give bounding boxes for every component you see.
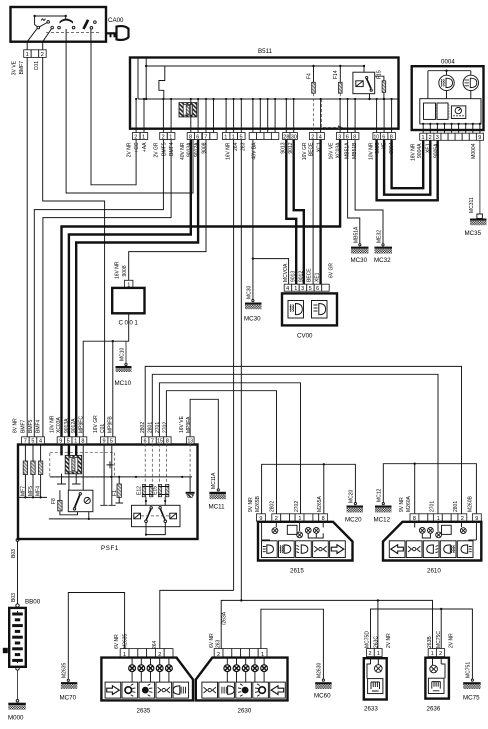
dashed arrow link <box>322 99 340 128</box>
svg-text:1: 1 <box>169 134 172 140</box>
svg-text:7: 7 <box>151 439 154 445</box>
ground MC70 <box>61 682 77 684</box>
svg-text:5: 5 <box>31 439 34 445</box>
B511 inner feed wire <box>145 58 147 99</box>
ground MC12 <box>375 506 392 508</box>
svg-text:2801: 2801 <box>453 501 459 512</box>
svg-text:2: 2 <box>439 651 442 657</box>
inner bus right part <box>50 476 192 478</box>
svg-text:264: 264 <box>152 640 158 649</box>
ground MC11 <box>209 492 226 494</box>
svg-text:B511: B511 <box>258 48 273 55</box>
icon 2635 reversing lamp <box>173 682 189 698</box>
svg-text:M000: M000 <box>8 715 24 722</box>
icon 2615 low beam <box>262 541 278 558</box>
svg-text:263C: 263C <box>373 636 379 648</box>
wire 263 bottom distribution <box>221 600 432 648</box>
PSF1 connector cells <box>22 437 195 445</box>
svg-text:2615: 2615 <box>290 568 304 575</box>
svg-text:263: 263 <box>216 639 222 648</box>
2610 icon cells <box>389 541 473 558</box>
svg-text:8: 8 <box>189 134 192 140</box>
thick wire 9013 B511 cell28 to CV00 <box>286 140 296 285</box>
svg-text:MC32: MC32 <box>374 257 391 264</box>
bulb 2630.2 <box>236 657 238 682</box>
2615 ground bus to MC20 <box>262 464 356 514</box>
svg-text:+CC: +CC <box>134 142 140 153</box>
svg-text:B03: B03 <box>11 549 17 558</box>
svg-text:MP9FA: MP9FA <box>186 416 192 433</box>
svg-text:PSF1: PSF1 <box>101 545 119 552</box>
wire BECE B511 cell2 to CV00 <box>312 140 314 285</box>
svg-text:7: 7 <box>204 134 207 140</box>
thick wire XE B511 to 0004 pin2 <box>384 140 430 195</box>
svg-text:4: 4 <box>39 439 42 445</box>
svg-text:5: 5 <box>110 439 113 445</box>
B511 inner bottom bus <box>138 98 398 100</box>
thick wire 9013A B511 to PSF1 cell5 <box>69 140 191 437</box>
bulb 2635.1 <box>131 657 133 682</box>
svg-text:MC20: MC20 <box>348 489 354 503</box>
svg-text:6: 6 <box>196 134 199 140</box>
svg-text:CA00: CA00 <box>108 17 124 24</box>
2615 internal bulbs <box>262 521 324 540</box>
bulb 2630.3 <box>245 657 247 682</box>
svg-text:6: 6 <box>346 134 349 140</box>
wire 9008 B511 cell7 to C001 <box>129 140 206 281</box>
wire 264 B511 to rear <box>233 140 235 591</box>
wire MP9FB PSF1 cell5 from C001 branch <box>112 341 114 437</box>
B511 inner left double line <box>137 58 139 99</box>
module pins to connector <box>423 124 480 133</box>
svg-text:10: 10 <box>374 134 380 140</box>
lamp wiring <box>428 71 471 99</box>
wire BMF4 B511 to PSF1 cell4 <box>43 140 171 437</box>
svg-text:MP9FC: MP9FC <box>79 416 85 433</box>
svg-text:40V NR: 40V NR <box>180 142 186 160</box>
module left <box>424 103 436 119</box>
svg-text:M2635: M2635 <box>62 662 68 678</box>
wire M2635 2635 cell1 to ground MC70 <box>68 593 124 680</box>
svg-text:263B: 263B <box>427 636 433 648</box>
relay 1 <box>68 490 93 512</box>
2610 ground bus to MC12 <box>383 464 476 514</box>
svg-text:BMF5: BMF5 <box>28 419 34 433</box>
svg-text:M260B: M260B <box>467 495 473 512</box>
svg-text:C01: C01 <box>100 424 106 433</box>
svg-text:2635: 2635 <box>137 708 151 715</box>
relay in B511 <box>353 72 375 94</box>
svg-text:MC60: MC60 <box>314 693 331 700</box>
headlamp unit 2610 box <box>383 522 481 561</box>
svg-text:1: 1 <box>422 135 425 141</box>
svg-text:28: 28 <box>283 134 289 140</box>
svg-text:2V NR: 2V NR <box>126 142 132 157</box>
icon 2635 rear fog lamp <box>122 682 138 698</box>
B511 step shape <box>159 66 165 99</box>
icon 2615 fog lamp <box>279 541 295 558</box>
svg-text:C001: C001 <box>119 320 140 327</box>
svg-text:2: 2 <box>429 135 432 141</box>
svg-text:XE1: XE1 <box>314 272 320 282</box>
svg-text:F8: F8 <box>51 498 57 504</box>
PSF1 top labels <box>13 415 192 433</box>
0004 connector cells <box>420 133 484 141</box>
thick wire XC1 B511 cell4 to CV00 cell6 <box>319 140 321 285</box>
svg-text:M260A: M260A <box>406 495 412 512</box>
CA00 mechanical link (dashed) <box>46 32 99 34</box>
svg-text:E15: E15 <box>153 486 159 495</box>
svg-text:/263A: /263A <box>221 611 227 625</box>
svg-text:2V NR: 2V NR <box>386 633 392 648</box>
svg-text:6V GR: 6V GR <box>329 263 335 278</box>
wire MC75D/MC75C to ground MC75 <box>371 609 473 679</box>
CA00 internal top link wire <box>35 15 66 17</box>
svg-text:BMF4: BMF4 <box>169 142 175 156</box>
wire MC10 drop from C001 <box>125 341 127 363</box>
svg-text:2: 2 <box>41 52 44 58</box>
lamp unit 2636 <box>425 649 449 713</box>
wires below relays <box>146 523 165 535</box>
svg-text:9013A: 9013A <box>64 418 70 433</box>
CA00 switch 1 <box>35 16 38 27</box>
svg-text:18V NR: 18V NR <box>411 143 417 161</box>
icon 2630 position lamp <box>202 682 218 698</box>
svg-text:13: 13 <box>188 438 194 444</box>
svg-text:BMF7: BMF7 <box>19 61 25 75</box>
svg-text:9008: 9008 <box>202 142 208 153</box>
ground M000 <box>16 667 19 670</box>
indicator lamp right (low beam) <box>463 75 478 90</box>
svg-text:MC20: MC20 <box>345 517 362 524</box>
CA00 connector cells 1,2 <box>24 50 32 58</box>
svg-text:BECE: BECE <box>306 268 312 282</box>
svg-text:M2630: M2630 <box>317 662 323 678</box>
B511 shunt component <box>179 103 197 117</box>
ground MC75 <box>463 682 480 684</box>
ignition switch CA00 box <box>11 7 107 42</box>
low beam icon cell <box>288 301 304 319</box>
svg-text:6V NR: 6V NR <box>114 634 120 649</box>
wire +AA CA00 to B511 <box>66 42 193 193</box>
svg-text:1: 1 <box>26 52 29 58</box>
icon 2635 stop lamp <box>139 682 155 698</box>
shunt outputs with terminal bars <box>62 474 77 490</box>
svg-text:2636: 2636 <box>427 706 441 713</box>
wire 2801 PSF1 cell7 to 2610 cell1 <box>152 374 438 514</box>
wire M0004 0004 pin9 to ground MC35 <box>479 140 481 214</box>
svg-text:1: 1 <box>232 134 235 140</box>
svg-text:CV00: CV00 <box>297 333 313 340</box>
svg-text:2: 2 <box>311 134 314 140</box>
svg-text:M265B: M265B <box>255 495 261 512</box>
svg-text:2: 2 <box>162 134 165 140</box>
icon 2615 main beam <box>296 541 312 558</box>
svg-text:BB00: BB00 <box>25 599 41 606</box>
CA00 switch 2 <box>65 16 67 19</box>
0004 inner module box <box>420 99 481 124</box>
svg-text:5: 5 <box>240 134 243 140</box>
wire MB51A B511 cell6 to ground MC30 <box>348 140 360 244</box>
dashed internal box with shunt <box>50 452 115 477</box>
thick wire 9012 B511 cell30 to CV00 <box>294 140 304 285</box>
svg-text:9012A: 9012A <box>71 418 77 433</box>
svg-text:2: 2 <box>134 134 137 140</box>
svg-text:B03: B03 <box>11 593 17 602</box>
svg-text:6: 6 <box>144 439 147 445</box>
CA00 switch 3 <box>82 19 89 29</box>
svg-text:+AA: +AA <box>142 142 148 152</box>
connector cell on C001 <box>124 280 132 288</box>
bulb 2635.4 <box>159 657 161 682</box>
svg-text:MC12: MC12 <box>377 488 383 502</box>
svg-text:MC75D: MC75D <box>364 631 370 648</box>
double relay box <box>132 505 181 526</box>
svg-text:M0004: M0004 <box>471 143 477 159</box>
svg-text:1: 1 <box>142 134 145 140</box>
svg-text:MC311: MC311 <box>469 197 475 213</box>
svg-text:16V VE: 16V VE <box>179 415 185 433</box>
ground MC35 <box>470 219 487 221</box>
dashed drops from cells 6/7/15/8 <box>145 444 190 483</box>
svg-text:MC11: MC11 <box>209 504 226 511</box>
svg-text:MCVOA: MCVOA <box>283 263 289 282</box>
junction box C001 <box>112 288 144 313</box>
key symbol <box>107 32 117 34</box>
svg-text:16V NR: 16V NR <box>115 261 121 279</box>
svg-text:1: 1 <box>224 134 227 140</box>
svg-text:16V NR: 16V NR <box>226 142 232 160</box>
svg-text:1: 1 <box>74 439 77 445</box>
svg-text:9008: 9008 <box>122 265 128 276</box>
B511 box <box>130 58 399 129</box>
bulb 2630.1 <box>226 657 228 682</box>
PSF1 lower-left bus to B03 <box>18 497 48 538</box>
ground MC30 (right) <box>351 247 369 249</box>
svg-text:E12: E12 <box>136 486 142 495</box>
ground MC30 (CV00) <box>245 303 262 305</box>
svg-text:9: 9 <box>103 439 106 445</box>
svg-text:MC751: MC751 <box>466 662 472 678</box>
svg-text:MC70: MC70 <box>60 695 77 702</box>
svg-text:15: 15 <box>157 438 163 444</box>
svg-text:MC30: MC30 <box>244 316 261 323</box>
svg-text:6V NR: 6V NR <box>209 633 215 648</box>
B511 connector cells row <box>132 133 395 141</box>
PSF1 fuse box <box>18 445 198 540</box>
svg-text:BMF4: BMF4 <box>36 419 42 433</box>
wire MP9FC PSF1 cell8 <box>83 313 129 436</box>
icon 2635 turn indicator arrow <box>105 682 121 698</box>
svg-text:2802: 2802 <box>140 422 146 433</box>
bulb 2630.5 <box>263 657 265 682</box>
svg-text:2: 2 <box>369 651 372 657</box>
thick wire XC03A B511 cell3 to PSF1 cell9 <box>62 140 341 437</box>
svg-text:2630: 2630 <box>238 708 252 715</box>
svg-text:4: 4 <box>286 286 289 292</box>
svg-text:9V NR: 9V NR <box>399 497 405 512</box>
svg-text:2610: 2610 <box>427 568 441 575</box>
svg-text:MC30: MC30 <box>351 257 368 264</box>
svg-text:9: 9 <box>59 439 62 445</box>
wire MP9FA PSF1 cell13 to ground MC11 <box>190 399 218 488</box>
2610 internal bulbs <box>415 521 477 540</box>
icon 2635 position lamp <box>156 682 172 698</box>
wire BMF7 CA00 pin1 to PSF1 <box>26 57 28 436</box>
wire 263 B511 to rear <box>240 140 242 601</box>
svg-text:30: 30 <box>291 134 297 140</box>
2615 connector cells <box>257 514 328 522</box>
bulb 2635.3 <box>150 657 152 682</box>
internal ground <box>189 477 191 492</box>
headlamp unit 2615 box <box>258 522 353 561</box>
svg-text:9012: 9012 <box>298 271 304 282</box>
gauge symbol <box>451 106 465 119</box>
svg-text:8: 8 <box>353 134 356 140</box>
svg-text:10V NR: 10V NR <box>50 415 56 433</box>
svg-text:3V VE: 3V VE <box>12 60 18 75</box>
wire 2701 PSF1 cell15 to 2615 cell1 <box>159 383 300 514</box>
icon 2615 position lamp <box>313 541 329 558</box>
svg-text:10V NR: 10V NR <box>368 142 374 160</box>
cell 9/5 drops with bars <box>104 444 112 506</box>
svg-text:F4: F4 <box>306 73 312 79</box>
svg-text:MC12: MC12 <box>374 517 391 524</box>
thick wire 9005 B511 to 0004 pin3 <box>377 140 438 201</box>
svg-text:MC30: MC30 <box>247 285 253 299</box>
ground MC60 <box>315 682 331 684</box>
CV00 headlamp box <box>282 293 337 325</box>
svg-text:4: 4 <box>319 134 322 140</box>
wire 2802 PSF1 cell6 to 2610 cell2 <box>145 366 461 513</box>
svg-text:M2635: M2635 <box>123 633 129 649</box>
B511 under-cell wire labels <box>126 142 395 160</box>
svg-text:2V GR: 2V GR <box>153 142 159 157</box>
svg-text:8: 8 <box>81 439 84 445</box>
icon 2630 reversing lamp <box>219 682 235 698</box>
B511 inner top bus <box>146 65 364 67</box>
svg-text:2801: 2801 <box>148 422 154 433</box>
svg-text:3: 3 <box>436 135 439 141</box>
wire 264 to 2635 cell2 <box>160 590 234 648</box>
svg-text:MC75: MC75 <box>463 695 480 702</box>
svg-text:9013: 9013 <box>291 271 297 282</box>
wire ME32 B511 cell8 to ground MC32 <box>355 140 383 244</box>
2615 icon cells <box>262 541 346 558</box>
lamp unit 2633 <box>364 649 387 713</box>
svg-text:XC03A: XC03A <box>56 416 62 433</box>
svg-text:40V BA: 40V BA <box>251 142 257 160</box>
svg-text:16V GR: 16V GR <box>93 415 99 433</box>
svg-text:6: 6 <box>382 134 385 140</box>
svg-text:9V NR: 9V NR <box>248 497 254 512</box>
svg-text:M265A: M265A <box>317 495 323 512</box>
wire 40V BA / MCVOA to ground MC30 <box>253 140 289 300</box>
svg-text:2702: 2702 <box>294 501 300 512</box>
svg-text:2701: 2701 <box>429 501 435 512</box>
ground MC20 <box>347 506 364 508</box>
svg-text:2702: 2702 <box>163 422 169 433</box>
icon 2615 turn indicator arrow <box>330 541 346 558</box>
icon 2610 turn indicator arrow <box>389 541 405 558</box>
wire +CC CA00 to B511 <box>91 42 136 185</box>
svg-text:ME32: ME32 <box>377 230 383 243</box>
svg-text:1: 1 <box>294 286 297 292</box>
wire 2702 PSF1 cell8 to 2615 cell2 <box>166 391 276 514</box>
svg-text:2V NR: 2V NR <box>449 633 455 648</box>
ground MC10 <box>116 366 132 368</box>
svg-text:MC10: MC10 <box>120 347 126 361</box>
PSF1 internals <box>18 444 195 539</box>
svg-text:8: 8 <box>390 134 393 140</box>
svg-text:F15: F15 <box>376 70 382 79</box>
svg-text:C01: C01 <box>34 61 40 70</box>
svg-text:MC35: MC35 <box>465 230 482 237</box>
svg-text:8V NR: 8V NR <box>13 418 19 433</box>
instrument panel 0004 box <box>412 66 484 130</box>
CV00 connector cells <box>284 284 292 291</box>
bulb 2635.5 <box>168 657 170 682</box>
svg-text:7: 7 <box>24 439 27 445</box>
2610 connector cells <box>410 514 481 522</box>
svg-text:2802: 2802 <box>270 501 276 512</box>
wire C01 CA00 pin2 to PSF1 cell9 <box>43 57 105 436</box>
bulb 2635.2 <box>140 657 142 682</box>
thick wire 9012A B511 to PSF1 cell1 <box>76 140 198 437</box>
svg-text:1: 1 <box>431 651 434 657</box>
fuses MF7 MF5 MF4 <box>25 444 40 461</box>
svg-text:16V GR: 16V GR <box>302 142 308 160</box>
svg-text:MP9FB: MP9FB <box>108 416 114 433</box>
ground MC32 <box>375 247 393 249</box>
rear lamp 2630 <box>196 649 288 715</box>
svg-text:2633: 2633 <box>364 706 378 713</box>
svg-text:9: 9 <box>478 135 481 141</box>
svg-text:F14: F14 <box>333 70 339 79</box>
svg-text:BMF5: BMF5 <box>161 142 167 156</box>
thick stubs into shunt <box>62 444 77 456</box>
svg-text:0004: 0004 <box>441 59 455 66</box>
svg-text:2701: 2701 <box>155 422 161 433</box>
IC symbol <box>437 103 448 119</box>
svg-text:5: 5 <box>67 439 70 445</box>
svg-text:MC10: MC10 <box>115 380 132 387</box>
svg-text:3: 3 <box>301 286 304 292</box>
svg-text:5: 5 <box>309 286 312 292</box>
rear lamp 2635 <box>101 649 193 715</box>
svg-text:MB51A: MB51A <box>353 226 359 243</box>
svg-text:16V VE: 16V VE <box>329 142 335 160</box>
indicator lamp left (high beam) <box>439 75 454 90</box>
wire B03 PSF1 to battery <box>16 539 19 542</box>
bulb 2630.4 <box>254 657 256 682</box>
B511 cell stub wires and bus dots <box>135 98 393 133</box>
high beam icon cell <box>312 301 328 319</box>
svg-text:BMF7: BMF7 <box>21 419 27 433</box>
svg-text:MC75C: MC75C <box>436 631 442 648</box>
svg-text:BECE: BECE <box>309 142 315 156</box>
splice C311 <box>477 214 483 219</box>
svg-text:1: 1 <box>377 651 380 657</box>
battery BB00 <box>16 604 19 607</box>
svg-text:8: 8 <box>166 439 169 445</box>
wire BMF5 B511 to PSF1 cell5 <box>34 140 163 437</box>
svg-text:3: 3 <box>338 134 341 140</box>
svg-text:MC11A: MC11A <box>211 472 217 489</box>
thick wire 9004 B511 to 0004 pin1 <box>392 140 424 189</box>
wire M2630 2630 cell1 to ground MC60 <box>261 609 324 679</box>
svg-text:6: 6 <box>316 286 319 292</box>
